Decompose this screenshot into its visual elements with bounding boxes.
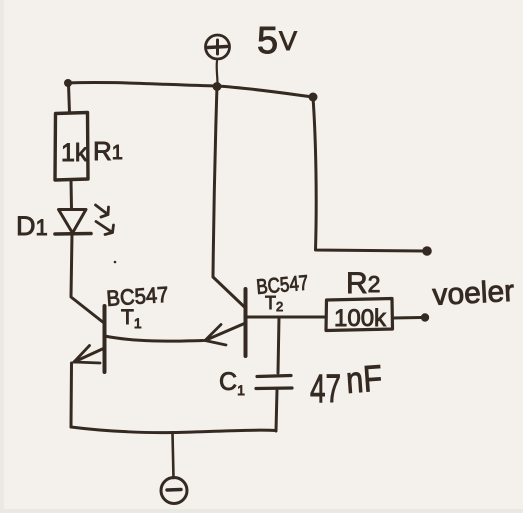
- svg-text:voeler: voeler: [432, 275, 515, 312]
- svg-text:BC547: BC547: [106, 282, 170, 311]
- svg-text:nF: nF: [345, 358, 384, 401]
- svg-text:R2: R2: [346, 267, 380, 300]
- svg-text:1k: 1k: [61, 139, 88, 167]
- svg-text:100k: 100k: [334, 305, 387, 332]
- svg-text:5: 5: [257, 20, 278, 62]
- svg-text:47: 47: [310, 367, 341, 411]
- svg-text:BC547: BC547: [255, 272, 309, 299]
- svg-text:V: V: [279, 26, 297, 56]
- svg-text:D1: D1: [16, 211, 48, 241]
